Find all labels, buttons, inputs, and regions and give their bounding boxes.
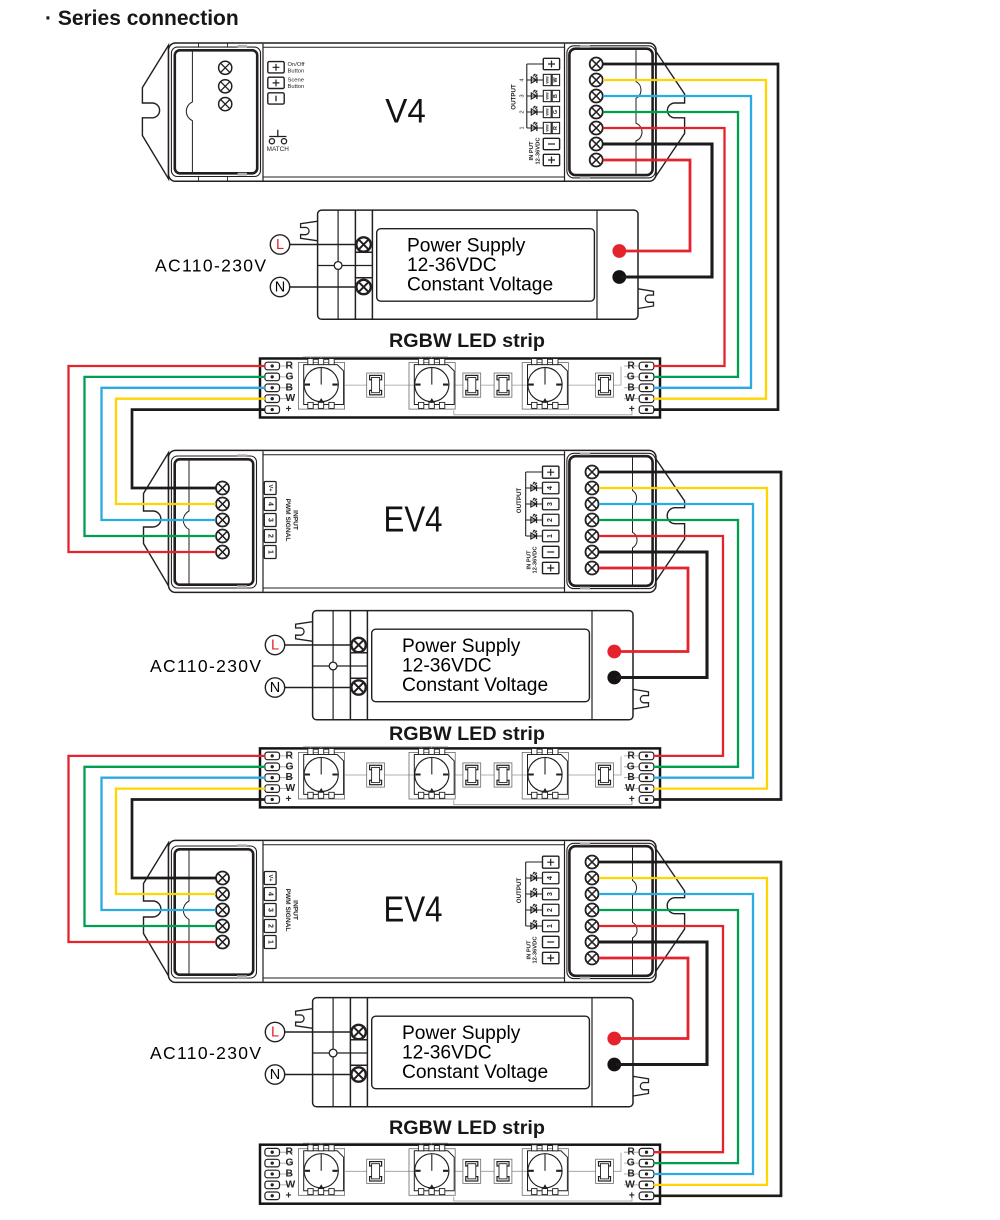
svg-text:OUTPUT: OUTPUT	[511, 84, 518, 110]
power supply PS3	[150, 998, 649, 1107]
wire EV4#1 IN+ to PS2 red terminal	[599, 568, 688, 652]
controller V4	[142, 43, 684, 181]
wire strip1 B to EV4#1 ch3 (blue)	[102, 388, 266, 520]
RGBW LED strip 1	[260, 357, 660, 418]
svg-text:WW: WW	[545, 76, 550, 84]
svg-text:RGBW LED strip: RGBW LED strip	[389, 1118, 545, 1139]
mounting ear (right)	[656, 52, 685, 177]
wire EV4#1 OUT+ to strip2 + (black)	[599, 472, 781, 800]
svg-text:MATCH: MATCH	[267, 146, 290, 153]
svg-text:RGBW LED strip: RGBW LED strip	[389, 331, 545, 352]
wire EV4#2 ch2 to strip3 G (green)	[599, 910, 738, 1163]
output channel 4 (W)	[519, 74, 559, 85]
power supply PS2	[150, 611, 649, 720]
MATCH button symbol	[267, 130, 290, 153]
antenna screws x3	[219, 61, 232, 110]
wire V4 ch4 to strip1 W (yellow)	[603, 80, 766, 399]
wire strip1 + to EV4#1 V+ (black)	[132, 410, 265, 488]
wire V4 ch1 to strip1 R (red)	[603, 128, 725, 366]
svg-text:1: 1	[519, 126, 525, 129]
wire strip2 W to EV4#2 ch4 (yellow)	[116, 789, 265, 894]
svg-text:WW: WW	[545, 124, 550, 132]
wire V4 IN- to PS1 black terminal	[603, 144, 712, 277]
wire strip1 R to EV4#1 ch1 (red)	[69, 366, 266, 552]
wire V4 ch2 to strip1 G (green)	[603, 112, 738, 377]
svg-text:Scene: Scene	[288, 78, 304, 84]
output screw terminals x7	[590, 58, 603, 167]
wire strip2 R to EV4#2 ch1 (red)	[69, 756, 266, 942]
svg-text:G: G	[553, 110, 559, 114]
svg-text:B: B	[553, 94, 559, 98]
wire EV4#2 ch3 to strip3 B (blue)	[599, 894, 753, 1174]
output channel 1 (R)	[519, 122, 559, 133]
wire strip2 B to EV4#2 ch3 (blue)	[102, 778, 266, 910]
svg-text:· Series connection: · Series connection	[45, 7, 239, 30]
wire V4 IN+ to PS1 red terminal	[603, 160, 690, 251]
input + box	[543, 154, 559, 165]
output channel 3 (B)	[519, 90, 559, 101]
wire V4 OUT+ to strip1 + (black)	[603, 64, 778, 410]
svg-text:WW: WW	[545, 92, 550, 100]
svg-text:3: 3	[519, 94, 525, 97]
wire strip2 + to EV4#2 V+ (black)	[132, 800, 265, 879]
wire EV4#2 OUT+ to strip3 + (black)	[599, 862, 781, 1196]
wire EV4#1 IN- to PS2 black terminal	[599, 552, 707, 678]
output bus	[527, 64, 544, 128]
output terminal compartment	[567, 46, 656, 178]
svg-text:12-36VDC: 12-36VDC	[535, 137, 541, 165]
left compartment (RF)	[171, 47, 260, 176]
RGBW LED strip 2	[260, 747, 660, 808]
output channel 2 (G)	[519, 106, 559, 117]
RGBW LED strip 3	[260, 1143, 660, 1204]
controller EV4 #1	[144, 450, 685, 592]
wire EV4#2 ch1 to strip3 R (red)	[599, 926, 723, 1152]
svg-text:RGBW LED strip: RGBW LED strip	[389, 724, 545, 745]
wire EV4#1 ch4 to strip2 W (yellow)	[599, 488, 767, 789]
wire EV4#2 IN- to PS3 black terminal	[599, 942, 707, 1065]
svg-text:Button: Button	[288, 84, 305, 90]
wire EV4#1 ch3 to strip2 B (blue)	[599, 504, 753, 778]
I button	[268, 93, 284, 104]
output + box	[543, 58, 559, 69]
mounting ear (left)	[142, 45, 168, 179]
svg-text:IN PUT: IN PUT	[529, 141, 535, 160]
power supply PS1	[155, 210, 654, 319]
IN PUT 12-36VDC label	[529, 137, 541, 165]
input - box	[543, 138, 559, 149]
wire EV4#2 ch4 to strip3 W (yellow)	[599, 878, 767, 1185]
svg-text:V4: V4	[385, 93, 426, 131]
Scene button	[268, 77, 284, 88]
enclosure shell	[169, 43, 657, 181]
wire strip2 G to EV4#2 ch2 (green)	[85, 767, 266, 926]
svg-text:2: 2	[519, 110, 525, 113]
svg-text:WW: WW	[545, 108, 550, 116]
svg-text:R: R	[553, 126, 559, 130]
wire strip1 G to EV4#1 ch2 (green)	[85, 377, 266, 536]
svg-text:Button: Button	[288, 68, 305, 74]
wire EV4#2 IN+ to PS3 red terminal	[599, 958, 688, 1039]
controller EV4 #2	[144, 840, 685, 982]
svg-text:On/Off: On/Off	[288, 62, 305, 68]
wire EV4#1 ch2 to strip2 G (green)	[599, 520, 738, 767]
wire EV4#1 ch1 to strip2 R (red)	[599, 536, 723, 756]
On/Off button	[268, 62, 284, 73]
wire strip1 W to EV4#1 ch4 (yellow)	[116, 399, 265, 504]
wire V4 ch3 to strip1 B (blue)	[603, 96, 751, 388]
